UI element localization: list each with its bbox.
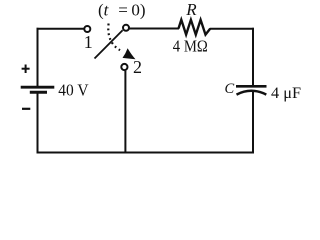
svg-text:(t=0): (t=0) bbox=[98, 0, 146, 19]
wire resistor to top-right corner bbox=[210, 28, 254, 30]
svg-text:40 V: 40 V bbox=[58, 80, 88, 99]
wire right vertical lower (capacitor to bottom corner) bbox=[252, 91, 254, 153]
switch throw arrowhead bbox=[123, 48, 136, 59]
wire switch pivot to resistor bbox=[129, 28, 179, 30]
svg-text:C: C bbox=[225, 81, 235, 97]
switch pivot terminal bbox=[123, 25, 129, 31]
battery minus sign bbox=[22, 108, 30, 110]
switch position 1 terminal bbox=[84, 26, 90, 32]
switch throw arrow (dotted arc) bbox=[108, 24, 120, 51]
wire left vertical upper (corner to battery) bbox=[37, 28, 39, 86]
wire terminal 2 down to bottom bbox=[124, 71, 126, 153]
wire bottom segment bbox=[37, 152, 255, 154]
resistor R zigzag bbox=[179, 20, 211, 35]
switch blade bbox=[95, 30, 123, 58]
battery V 40 V plates bbox=[21, 87, 55, 92]
battery plus sign bbox=[22, 65, 30, 74]
wire left vertical lower (battery to bottom corner) bbox=[37, 93, 39, 154]
capacitor C curved plate bbox=[237, 91, 267, 95]
svg-text:4 μF: 4 μF bbox=[271, 85, 301, 102]
svg-text:1: 1 bbox=[84, 32, 93, 52]
wire right vertical upper (corner to capacitor) bbox=[252, 28, 254, 86]
svg-text:R: R bbox=[185, 0, 197, 19]
capacitor C top plate bbox=[236, 85, 267, 88]
svg-text:4 MΩ: 4 MΩ bbox=[173, 37, 208, 56]
switch position 2 terminal bbox=[121, 64, 127, 70]
wire top-left segment bbox=[37, 28, 85, 30]
svg-text:2: 2 bbox=[133, 57, 142, 77]
